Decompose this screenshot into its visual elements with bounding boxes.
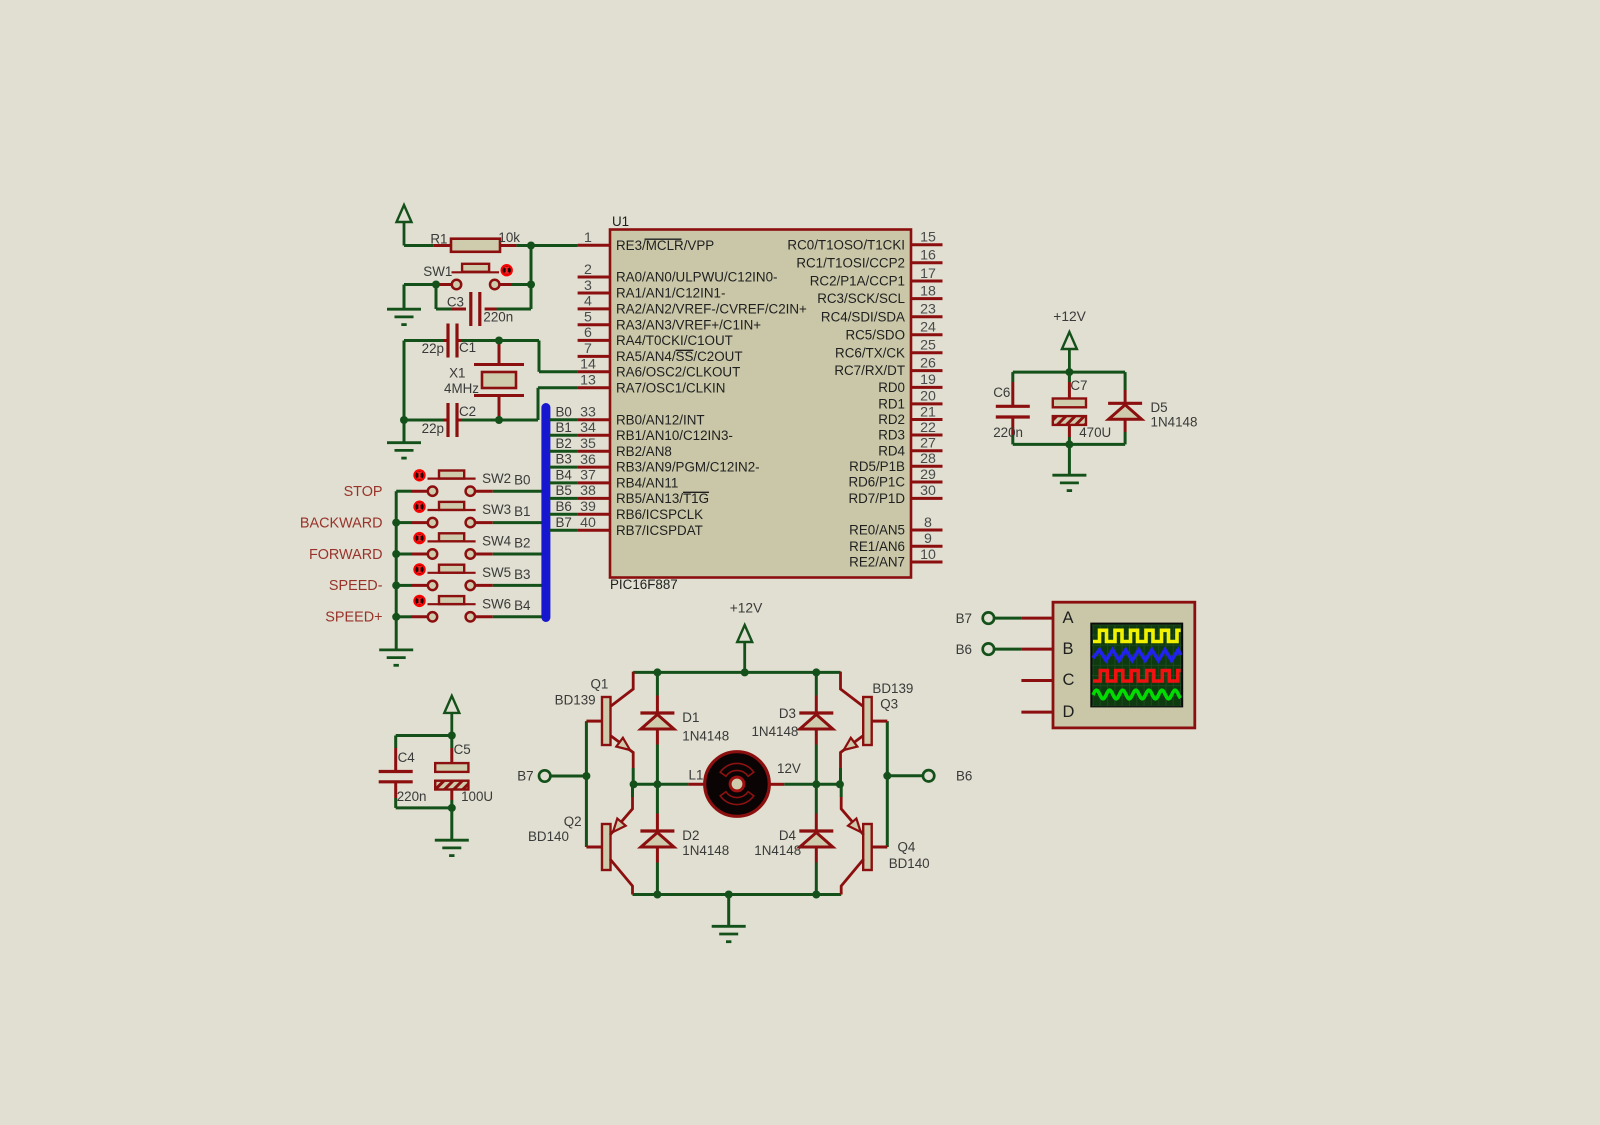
- svg-text:SW6: SW6: [482, 596, 511, 611]
- svg-text:BD139: BD139: [872, 681, 913, 696]
- svg-text:RD7/P1D: RD7/P1D: [848, 491, 905, 506]
- svg-text:U1: U1: [612, 214, 629, 229]
- svg-text:C5: C5: [454, 742, 471, 757]
- svg-text:SW5: SW5: [482, 565, 511, 580]
- svg-text:2: 2: [584, 262, 592, 278]
- svg-text:100U: 100U: [461, 789, 493, 804]
- svg-text:7: 7: [584, 341, 592, 357]
- svg-text:37: 37: [580, 468, 596, 484]
- svg-text:B0: B0: [556, 404, 572, 419]
- svg-text:C7: C7: [1070, 378, 1087, 393]
- svg-text:13: 13: [580, 373, 596, 389]
- svg-text:B6: B6: [956, 768, 972, 783]
- svg-text:25: 25: [920, 338, 936, 354]
- svg-text:Q1: Q1: [591, 677, 609, 692]
- svg-text:9: 9: [924, 531, 932, 547]
- svg-text:B7: B7: [556, 515, 572, 530]
- svg-text:6: 6: [584, 325, 592, 341]
- svg-text:B5: B5: [556, 483, 572, 498]
- svg-text:C: C: [1063, 671, 1075, 689]
- svg-text:C3: C3: [447, 295, 464, 310]
- svg-text:RE3/MCLR/VPP: RE3/MCLR/VPP: [616, 238, 714, 253]
- svg-text:D1: D1: [682, 710, 699, 725]
- svg-text:SW2: SW2: [482, 471, 511, 486]
- svg-text:RD6/P1C: RD6/P1C: [848, 475, 905, 490]
- svg-text:B2: B2: [556, 436, 572, 451]
- svg-text:SPEED-: SPEED-: [329, 578, 383, 594]
- svg-text:1N4148: 1N4148: [682, 843, 729, 858]
- svg-text:A: A: [1063, 609, 1074, 627]
- svg-text:RD1: RD1: [878, 397, 905, 412]
- svg-text:4: 4: [584, 294, 592, 310]
- svg-text:20: 20: [920, 389, 936, 405]
- svg-text:D3: D3: [779, 706, 796, 721]
- svg-text:1N4148: 1N4148: [682, 729, 729, 744]
- svg-text:BD140: BD140: [528, 829, 569, 844]
- svg-text:RB6/ICSPCLK: RB6/ICSPCLK: [616, 507, 703, 522]
- svg-text:B3: B3: [514, 567, 530, 582]
- svg-text:C1: C1: [459, 340, 476, 355]
- svg-text:RC0/T1OSO/T1CKI: RC0/T1OSO/T1CKI: [787, 237, 905, 252]
- svg-text:RC4/SDI/SDA: RC4/SDI/SDA: [821, 309, 905, 324]
- svg-text:22p: 22p: [422, 341, 444, 356]
- svg-text:B1: B1: [514, 504, 530, 519]
- svg-text:BD140: BD140: [889, 856, 930, 871]
- svg-text:C4: C4: [398, 750, 416, 765]
- svg-text:B1: B1: [556, 420, 572, 435]
- svg-text:34: 34: [580, 420, 596, 436]
- svg-text:RE2/AN7: RE2/AN7: [849, 555, 905, 570]
- svg-text:Q4: Q4: [898, 840, 916, 855]
- svg-text:3: 3: [584, 278, 592, 294]
- svg-text:470U: 470U: [1079, 425, 1111, 440]
- svg-text:36: 36: [580, 452, 596, 468]
- svg-text:Q2: Q2: [564, 814, 582, 829]
- svg-text:RD5/P1B: RD5/P1B: [849, 459, 905, 474]
- svg-text:B7: B7: [517, 769, 533, 784]
- svg-text:14: 14: [580, 357, 596, 373]
- svg-text:220n: 220n: [993, 425, 1023, 440]
- svg-text:35: 35: [580, 436, 596, 452]
- svg-text:8: 8: [924, 515, 932, 531]
- svg-text:D: D: [1063, 703, 1075, 721]
- svg-text:1: 1: [584, 230, 592, 246]
- svg-text:RB2/AN8: RB2/AN8: [616, 444, 672, 459]
- svg-text:D4: D4: [779, 828, 797, 843]
- svg-text:BACKWARD: BACKWARD: [300, 515, 383, 531]
- svg-text:23: 23: [920, 302, 936, 318]
- svg-text:220n: 220n: [397, 789, 427, 804]
- svg-text:SW1: SW1: [423, 264, 452, 279]
- svg-text:24: 24: [920, 320, 936, 336]
- svg-text:30: 30: [920, 483, 936, 499]
- svg-text:RA7/OSC1/CLKIN: RA7/OSC1/CLKIN: [616, 380, 725, 395]
- svg-text:SW4: SW4: [482, 534, 512, 549]
- svg-text:RE0/AN5: RE0/AN5: [849, 523, 905, 538]
- svg-text:RC3/SCK/SCL: RC3/SCK/SCL: [817, 291, 905, 306]
- svg-text:RA0/AN0/ULPWU/C12IN0-: RA0/AN0/ULPWU/C12IN0-: [616, 270, 777, 285]
- svg-text:Q3: Q3: [880, 697, 898, 712]
- svg-text:4MHz: 4MHz: [444, 381, 479, 396]
- svg-text:28: 28: [920, 451, 936, 467]
- svg-text:RB0/AN12/INT: RB0/AN12/INT: [616, 412, 705, 427]
- svg-text:RD0: RD0: [878, 380, 905, 395]
- svg-text:27: 27: [920, 436, 936, 452]
- svg-text:RD3: RD3: [878, 428, 905, 443]
- svg-text:C6: C6: [993, 385, 1010, 400]
- svg-text:RA5/AN4/SS/C2OUT: RA5/AN4/SS/C2OUT: [616, 349, 743, 364]
- svg-text:29: 29: [920, 467, 936, 483]
- svg-text:B2: B2: [514, 535, 530, 550]
- svg-text:RC6/TX/CK: RC6/TX/CK: [835, 345, 905, 360]
- svg-text:BD139: BD139: [555, 692, 596, 707]
- svg-text:STOP: STOP: [344, 484, 383, 500]
- svg-text:B4: B4: [556, 468, 573, 483]
- svg-text:33: 33: [580, 405, 596, 421]
- svg-text:X1: X1: [449, 366, 465, 381]
- svg-text:22p: 22p: [422, 421, 444, 436]
- svg-text:B7: B7: [956, 611, 972, 626]
- svg-text:5: 5: [584, 310, 592, 326]
- svg-text:B6: B6: [956, 642, 972, 657]
- svg-text:21: 21: [920, 404, 936, 420]
- svg-text:RC7/RX/DT: RC7/RX/DT: [834, 363, 905, 378]
- svg-text:19: 19: [920, 372, 936, 388]
- svg-text:RD2: RD2: [878, 412, 905, 427]
- svg-text:1N4148: 1N4148: [751, 724, 798, 739]
- svg-text:B: B: [1063, 640, 1074, 658]
- svg-text:10: 10: [920, 547, 936, 563]
- svg-text:RE1/AN6: RE1/AN6: [849, 539, 905, 554]
- svg-text:B4: B4: [514, 598, 531, 613]
- svg-text:RB4/AN11: RB4/AN11: [616, 476, 678, 491]
- svg-text:+12V: +12V: [730, 601, 763, 616]
- svg-text:L1: L1: [689, 768, 704, 783]
- svg-text:RC1/T1OSI/CCP2: RC1/T1OSI/CCP2: [796, 255, 905, 270]
- svg-text:FORWARD: FORWARD: [309, 547, 383, 563]
- svg-text:22: 22: [920, 420, 936, 436]
- svg-text:RB1/AN10/C12IN3-: RB1/AN10/C12IN3-: [616, 428, 733, 443]
- svg-text:1N4148: 1N4148: [1151, 414, 1198, 429]
- svg-text:RA1/AN1/C12IN1-: RA1/AN1/C12IN1-: [616, 286, 725, 301]
- svg-text:SPEED+: SPEED+: [325, 610, 382, 626]
- svg-text:10k: 10k: [498, 230, 520, 245]
- svg-text:RB3/AN9/PGM/C12IN2-: RB3/AN9/PGM/C12IN2-: [616, 460, 760, 475]
- svg-text:RB7/ICSPDAT: RB7/ICSPDAT: [616, 523, 703, 538]
- svg-text:40: 40: [580, 515, 596, 531]
- svg-text:26: 26: [920, 355, 936, 371]
- svg-text:PIC16F887: PIC16F887: [610, 577, 678, 592]
- svg-text:R1: R1: [430, 232, 447, 247]
- svg-text:RA3/AN3/VREF+/C1IN+: RA3/AN3/VREF+/C1IN+: [616, 317, 761, 332]
- svg-text:17: 17: [920, 266, 936, 282]
- svg-text:18: 18: [920, 283, 936, 299]
- svg-text:1N4148: 1N4148: [754, 843, 801, 858]
- svg-text:B0: B0: [514, 473, 530, 488]
- svg-text:38: 38: [580, 483, 596, 499]
- svg-text:RD4: RD4: [878, 443, 905, 458]
- svg-text:RC2/P1A/CCP1: RC2/P1A/CCP1: [810, 274, 905, 289]
- svg-text:D5: D5: [1151, 400, 1168, 415]
- svg-text:RA6/OSC2/CLKOUT: RA6/OSC2/CLKOUT: [616, 364, 740, 379]
- svg-text:B6: B6: [556, 499, 572, 514]
- svg-text:RB5/AN13/T1G: RB5/AN13/T1G: [616, 491, 709, 506]
- svg-text:220n: 220n: [483, 310, 513, 325]
- svg-text:+12V: +12V: [1053, 309, 1086, 324]
- svg-text:RC5/SDO: RC5/SDO: [845, 327, 905, 342]
- svg-text:RA4/T0CKI/C1OUT: RA4/T0CKI/C1OUT: [616, 333, 733, 348]
- svg-text:SW3: SW3: [482, 502, 511, 517]
- svg-text:15: 15: [920, 230, 936, 246]
- svg-text:16: 16: [920, 248, 936, 264]
- svg-text:RA2/AN2/VREF-/CVREF/C2IN+: RA2/AN2/VREF-/CVREF/C2IN+: [616, 302, 807, 317]
- svg-text:39: 39: [580, 499, 596, 515]
- svg-text:12V: 12V: [777, 761, 801, 776]
- svg-text:D2: D2: [682, 828, 699, 843]
- svg-text:C2: C2: [459, 404, 476, 419]
- svg-text:B3: B3: [556, 452, 572, 467]
